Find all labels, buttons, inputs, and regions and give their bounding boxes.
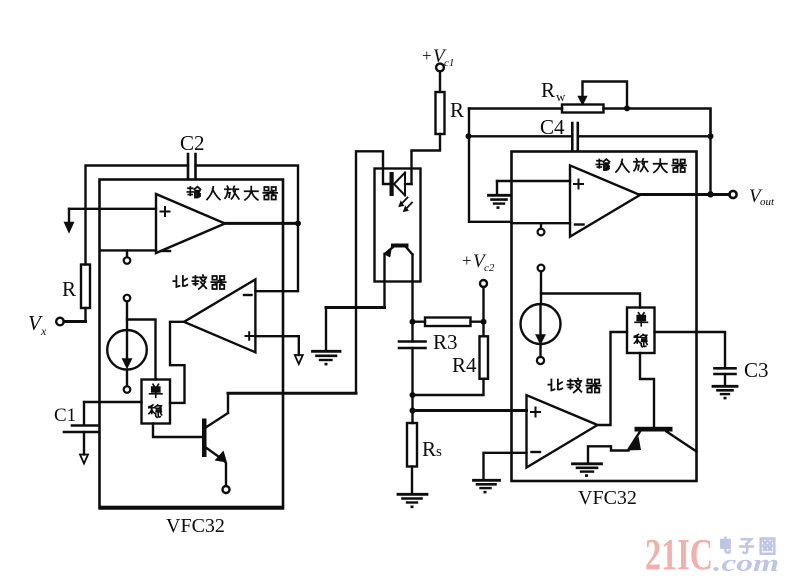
op-amp U1 input amplifier left xyxy=(156,194,225,253)
capacitor C2 xyxy=(188,154,196,179)
wire monostable bottom to Q2 base xyxy=(640,353,654,427)
ground arrow below C1 xyxy=(80,432,88,464)
wire R bottom lead xyxy=(84,308,86,322)
node output junction dot right xyxy=(707,191,713,197)
label input amplifier (Chinese) right xyxy=(596,159,686,173)
svg-text:R3: R3 xyxy=(433,330,458,354)
comparator A1 left (points left) xyxy=(184,279,255,352)
node C4 right dot xyxy=(708,133,714,139)
wire Vc1 to R xyxy=(439,72,441,93)
wire Vx to R xyxy=(64,320,86,323)
pin stub below U2 minus xyxy=(538,223,545,235)
label C4 xyxy=(540,115,565,139)
wire feedback left vertical to U2 minus xyxy=(469,109,512,222)
wire A1 output staircase to monostable xyxy=(170,322,185,403)
svg-text:+: + xyxy=(462,251,472,270)
current source I1 left xyxy=(107,330,147,370)
wire output to comparator minus xyxy=(255,223,298,291)
ground symbol at A2 minus xyxy=(474,480,500,493)
monostable block right xyxy=(627,308,655,354)
wire Q1 collector to opto LED cathode loop xyxy=(228,392,356,395)
svg-text:VFC32: VFC32 xyxy=(166,515,225,537)
phototransistor Q3 base bar xyxy=(391,244,409,248)
wire C4 rail xyxy=(469,135,711,137)
svg-text:C2: C2 xyxy=(180,131,205,155)
node C4 left dot xyxy=(466,133,472,139)
potentiometer Rw body xyxy=(562,105,604,113)
resistor R3 (horizontal) xyxy=(413,318,484,327)
wire current source node to monostable right top xyxy=(541,294,640,308)
node Vout terminal xyxy=(729,191,736,198)
chip box VFC32 left xyxy=(100,180,284,509)
pin stub below current source left xyxy=(124,370,131,393)
wire pin to monostable top xyxy=(127,301,156,379)
svg-text:s: s xyxy=(436,444,442,460)
label A1 minus xyxy=(244,294,252,296)
svg-text:R4: R4 xyxy=(452,353,477,377)
svg-text:21IC: 21IC xyxy=(645,530,713,579)
wire C1 node to monostable left xyxy=(84,401,142,403)
LED light arrows xyxy=(399,198,412,212)
resistor R1 (input R, left) xyxy=(81,265,90,309)
wire U1 output xyxy=(225,222,298,225)
wire U2 plus input xyxy=(497,180,570,182)
svg-text:R: R xyxy=(62,277,76,301)
transistor Q1 base bar xyxy=(202,419,207,458)
node R4 return dot xyxy=(410,392,416,398)
svg-text:c1: c1 xyxy=(444,57,454,69)
svg-text:R: R xyxy=(450,98,464,122)
wire A2 minus input xyxy=(484,453,527,479)
label +Vc2 xyxy=(462,251,495,274)
label VFC32 left xyxy=(166,515,225,537)
label U1 minus xyxy=(162,250,171,252)
resistor R4 (vertical) xyxy=(480,336,489,379)
wire Vc2 down to R3/R4 node xyxy=(482,287,484,336)
wire C1 top lead xyxy=(83,402,85,425)
node +Vc2 terminal xyxy=(480,280,487,287)
transistor Q1 emitter xyxy=(207,448,228,486)
transistor Q2 base bar xyxy=(635,427,673,432)
watermark .com xyxy=(713,551,779,577)
wire R4 bottom to cap bottom node xyxy=(413,379,484,395)
wire R bottom to LED anode xyxy=(412,134,441,184)
wire C2 to output node xyxy=(196,166,299,224)
label A1 plus xyxy=(246,332,254,339)
svg-text:R: R xyxy=(541,78,555,102)
capacitor C4 xyxy=(572,123,578,151)
wire U1 plus input xyxy=(69,208,156,210)
wire feedback right vertical to output xyxy=(709,136,711,194)
ground symbol at Q2 emitter xyxy=(573,464,602,477)
pin stub below current source right xyxy=(537,344,544,364)
label +Vc1 xyxy=(422,46,454,69)
svg-text:x: x xyxy=(40,324,47,338)
wire Rw top rail xyxy=(469,109,711,137)
label C3 xyxy=(744,358,769,382)
label Rw xyxy=(541,78,566,104)
label R4 xyxy=(452,353,477,377)
wire U2 output to Vout xyxy=(640,193,730,196)
phototransistor Q3 emitter (left, to ground) xyxy=(384,248,392,308)
ground symbol at opto emitter xyxy=(313,308,341,366)
resistor R (middle, LED series) xyxy=(436,92,445,134)
label Vout xyxy=(749,186,775,208)
wire monostable right to C3 xyxy=(655,332,726,368)
wire emitter ground rail xyxy=(326,306,385,309)
node Vx input terminal xyxy=(56,318,64,326)
node Rw wiper junction dot xyxy=(624,105,630,111)
label Vx xyxy=(28,311,47,338)
watermark dianziwang (Chinese) xyxy=(721,538,774,554)
pin circle above current source right xyxy=(538,265,545,272)
ground symbol at U2 plus xyxy=(489,181,510,209)
LED cathode loop wire (around left of opto box) xyxy=(356,151,390,393)
optocoupler box xyxy=(375,169,421,282)
monostable block left xyxy=(142,380,171,424)
capacitor C1 xyxy=(64,426,98,433)
label Rs xyxy=(422,437,442,461)
label U2 minus xyxy=(575,223,584,225)
node comparator input dot xyxy=(410,408,416,414)
coupling capacitor below R3 xyxy=(399,322,426,423)
node Q1 emitter terminal xyxy=(223,486,230,493)
svg-text:VFC32: VFC32 xyxy=(578,487,637,509)
wire A1 plus input xyxy=(255,336,298,355)
svg-text:.com: .com xyxy=(713,551,779,577)
label A2 minus xyxy=(532,451,541,453)
wire monostable bottom to Q1 base xyxy=(153,424,202,438)
wire U1 minus input xyxy=(100,249,156,251)
phototransistor Q3 collector (right, down) xyxy=(407,248,413,322)
transistor Q2 emitter (to ground) xyxy=(588,432,641,463)
svg-text:w: w xyxy=(556,89,566,104)
pin stub below U1 minus xyxy=(124,250,131,263)
label R (middle) xyxy=(450,98,464,122)
svg-text:out: out xyxy=(760,196,775,208)
label C2 xyxy=(180,131,205,155)
svg-text:c2: c2 xyxy=(484,262,495,274)
wire pin to current source right xyxy=(540,271,542,303)
label A2 plus xyxy=(531,408,540,417)
label monostable (Chinese) left xyxy=(149,384,162,417)
svg-text:R: R xyxy=(422,437,436,461)
svg-text:C4: C4 xyxy=(540,115,565,139)
chip box VFC32 right xyxy=(512,152,697,482)
label VFC32 right xyxy=(578,487,637,509)
node output junction dot xyxy=(295,220,301,226)
label comparator (Chinese) left xyxy=(173,275,225,289)
transistor Q2 collector (to box edge) xyxy=(667,432,697,452)
ground symbol below C3 xyxy=(713,374,737,399)
label monostable (Chinese) right xyxy=(634,313,647,347)
wire node to comparator A2 plus xyxy=(413,409,527,412)
label U2 plus xyxy=(574,180,583,189)
label C1 xyxy=(54,405,76,426)
svg-text:+: + xyxy=(422,46,432,65)
current source I2 right xyxy=(521,304,561,344)
ground arrow at U1 plus xyxy=(65,209,73,232)
svg-text:C1: C1 xyxy=(54,405,76,426)
svg-text:C3: C3 xyxy=(744,358,769,382)
wire pin to current source xyxy=(126,320,128,331)
label R3 xyxy=(433,330,458,354)
label U1 plus xyxy=(161,207,170,216)
node +Vc1 terminal xyxy=(436,64,444,72)
comparator A2 right xyxy=(527,395,598,467)
ground arrow at A1 plus xyxy=(295,355,303,364)
pin circle above current source left xyxy=(124,295,131,302)
ground symbol below Rs xyxy=(398,467,427,509)
op-amp U2 input amplifier right xyxy=(570,165,640,236)
node opto collector to R3 junction xyxy=(410,319,416,325)
wire R top to C2 loop xyxy=(86,166,189,265)
resistor Rs (vertical) xyxy=(407,423,417,467)
potentiometer Rw wiper xyxy=(579,82,628,107)
watermark 21IC xyxy=(645,530,713,579)
label input amplifier (Chinese) left xyxy=(187,186,277,200)
capacitor C3 xyxy=(715,368,736,374)
wire U2 minus input xyxy=(512,222,571,224)
label comparator (Chinese) right xyxy=(548,379,600,393)
wire A2 output to monostable left xyxy=(598,332,628,425)
node R3 right junction dot xyxy=(481,319,487,325)
label R (left resistor) xyxy=(62,277,76,301)
transistor Q1 collector xyxy=(207,393,229,427)
LED D1 in optocoupler xyxy=(390,172,412,196)
